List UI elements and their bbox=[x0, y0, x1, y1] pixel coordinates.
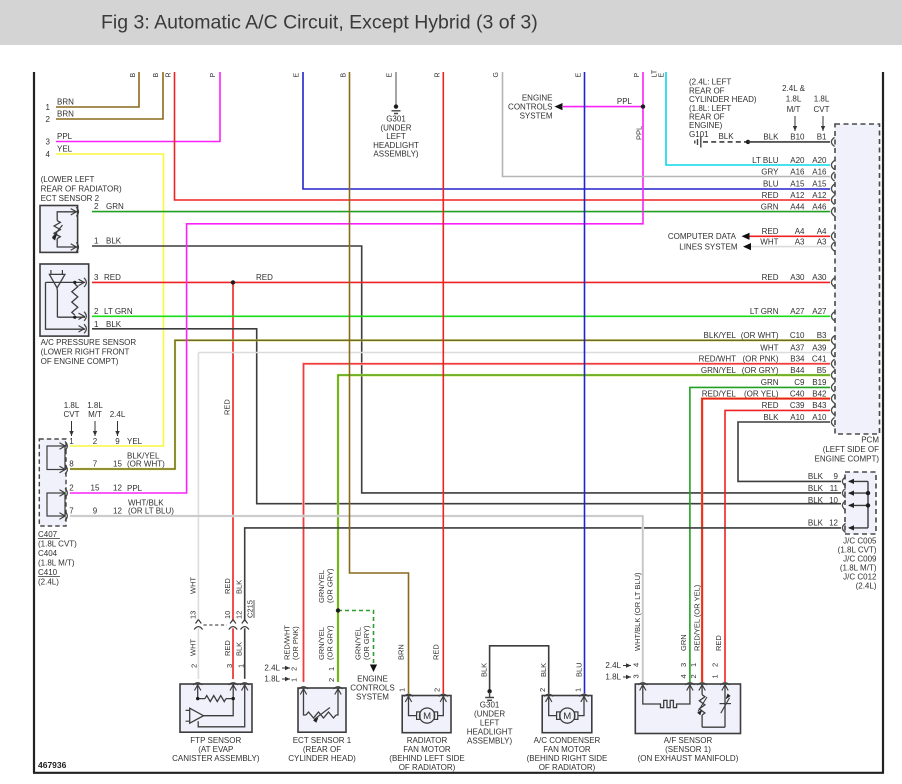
svg-text:1: 1 bbox=[573, 688, 582, 692]
svg-text:(ON EXHAUST MANIFOLD): (ON EXHAUST MANIFOLD) bbox=[638, 754, 739, 763]
svg-text:RED: RED bbox=[762, 401, 779, 410]
svg-text:1: 1 bbox=[46, 103, 51, 112]
svg-text:BLK: BLK bbox=[106, 237, 122, 246]
svg-text:1.8L: 1.8L bbox=[605, 673, 621, 682]
pin 1 FTP sensor bbox=[240, 683, 249, 691]
svg-text:1.8L: 1.8L bbox=[814, 95, 830, 104]
arrow to engine controls system bbox=[370, 665, 377, 673]
svg-text:2: 2 bbox=[94, 202, 99, 211]
J/C internal bus bbox=[867, 481, 869, 528]
svg-text:(AT EVAP: (AT EVAP bbox=[198, 745, 233, 754]
svg-text:2: 2 bbox=[93, 437, 98, 446]
svg-text:C9: C9 bbox=[794, 378, 805, 387]
J/C bus junction bbox=[866, 503, 870, 507]
svg-text:(SENSOR 1): (SENSOR 1) bbox=[665, 745, 711, 754]
svg-text:A12: A12 bbox=[790, 191, 805, 200]
svg-text:4: 4 bbox=[679, 674, 688, 678]
wire BRN row1 (pin 1) bbox=[56, 72, 139, 107]
svg-text:(OR GRY): (OR GRY) bbox=[742, 366, 779, 375]
svg-text:A12: A12 bbox=[812, 191, 827, 200]
svg-text:PPL: PPL bbox=[617, 97, 633, 106]
svg-text:2: 2 bbox=[290, 667, 299, 671]
wire BLU to A/C condenser fan motor pin 1 bbox=[584, 72, 586, 694]
wire GRN ECT sensor 2 pin 2 to PCM A44/A46 bbox=[92, 211, 830, 213]
svg-text:R: R bbox=[166, 72, 173, 77]
motor M condenser fan bbox=[549, 696, 557, 716]
svg-text:RED: RED bbox=[104, 273, 121, 282]
pin A/F sensor RED bbox=[720, 683, 729, 691]
A/C pressure sensor box bbox=[40, 264, 89, 336]
svg-text:LINES SYSTEM: LINES SYSTEM bbox=[679, 243, 738, 252]
svg-text:B3: B3 bbox=[817, 331, 827, 340]
svg-text:BRN: BRN bbox=[397, 644, 406, 660]
wire RED below C215 to FTP sensor pin 3 bbox=[232, 628, 234, 679]
wire GRY to PCM A16 bbox=[503, 72, 831, 177]
svg-text:RED: RED bbox=[223, 578, 232, 594]
J/C pin cup y=493.1 bbox=[842, 489, 845, 498]
wire BRN to radiator fan motor pin 1 bbox=[350, 72, 409, 694]
svg-text:10: 10 bbox=[223, 611, 232, 619]
svg-text:RED: RED bbox=[223, 640, 232, 656]
svg-text:GRN: GRN bbox=[679, 634, 688, 651]
title bar bbox=[0, 0, 902, 45]
C407 pin row 4 bbox=[60, 511, 68, 520]
junction RED at A/C pressure sensor branch bbox=[231, 280, 235, 284]
svg-text:OF RADIATOR): OF RADIATOR) bbox=[399, 763, 456, 772]
svg-text:HEADLIGHT: HEADLIGHT bbox=[467, 728, 513, 737]
svg-text:RED: RED bbox=[432, 644, 441, 660]
connector C407 dashed box bbox=[39, 439, 66, 526]
wire RED branch down to C215 pin 10 bbox=[232, 282, 234, 621]
A/F sensor variable resistor 1 bbox=[701, 684, 703, 695]
svg-text:(OR YEL): (OR YEL) bbox=[744, 389, 779, 398]
svg-text:A/C PRESSURE SENSOR: A/C PRESSURE SENSOR bbox=[41, 338, 137, 347]
svg-text:A27: A27 bbox=[812, 307, 827, 316]
PCM pin cup y=316.3 bbox=[831, 312, 834, 321]
svg-text:LT: LT bbox=[652, 69, 659, 77]
svg-text:A30: A30 bbox=[790, 273, 805, 282]
svg-text:YEL: YEL bbox=[57, 145, 73, 154]
svg-text:(1.8L M/T): (1.8L M/T) bbox=[840, 564, 877, 573]
svg-text:WHT: WHT bbox=[188, 577, 197, 594]
pin 1 A/C condenser fan motor bbox=[579, 694, 588, 702]
connector C215 break BLK bbox=[241, 620, 249, 630]
svg-text:R: R bbox=[435, 72, 442, 77]
svg-text:BLK: BLK bbox=[763, 413, 779, 422]
svg-text:(REAR OF: (REAR OF bbox=[303, 745, 341, 754]
svg-text:1.8L: 1.8L bbox=[264, 675, 280, 684]
svg-text:12: 12 bbox=[829, 519, 838, 528]
svg-text:GRN: GRN bbox=[761, 202, 779, 211]
wire RED to radiator fan motor pin 2 bbox=[442, 72, 444, 694]
pin 2 FTP sensor bbox=[193, 683, 202, 691]
svg-text:RED: RED bbox=[223, 399, 232, 415]
svg-text:A16: A16 bbox=[812, 167, 827, 176]
svg-text:BLK/YEL: BLK/YEL bbox=[704, 331, 737, 340]
svg-text:CYLINDER HEAD): CYLINDER HEAD) bbox=[689, 95, 757, 104]
svg-text:ECT SENSOR 1: ECT SENSOR 1 bbox=[293, 736, 352, 745]
pin A/F sensor RED/YEL bbox=[698, 683, 707, 691]
wire WHT to PCM A37/A39 bbox=[198, 352, 830, 354]
svg-text:1: 1 bbox=[237, 664, 246, 668]
svg-text:P: P bbox=[210, 73, 217, 78]
thermistor ECT sensor 2 bbox=[57, 212, 77, 221]
svg-text:REAR OF: REAR OF bbox=[689, 113, 725, 122]
svg-text:FAN MOTOR: FAN MOTOR bbox=[543, 745, 591, 754]
svg-text:A4: A4 bbox=[795, 227, 805, 236]
svg-text:A20: A20 bbox=[812, 156, 827, 165]
svg-text:A30: A30 bbox=[812, 273, 827, 282]
svg-text:1: 1 bbox=[94, 237, 99, 246]
PCM pin cup y=352.5 bbox=[831, 348, 834, 357]
J/C pin cup y=505.4 bbox=[842, 501, 845, 510]
svg-text:B34: B34 bbox=[790, 355, 805, 364]
svg-text:(2.4L: LEFT: (2.4L: LEFT bbox=[689, 78, 731, 87]
svg-text:GRY: GRY bbox=[761, 167, 779, 176]
svg-text:BLK: BLK bbox=[808, 472, 824, 481]
wire BLK to PCM B10/B1 bbox=[748, 141, 830, 143]
svg-text:G301: G301 bbox=[480, 701, 500, 710]
PCM pin cup y=363.8 bbox=[831, 359, 834, 368]
ground G301 (bottom) symbol bbox=[485, 692, 494, 700]
wire BLK A/C condenser fan motor pin 2 to ground G301 bbox=[490, 646, 549, 694]
svg-text:ASSEMBLY): ASSEMBLY) bbox=[467, 737, 513, 746]
thermistor ECT sensor 1 bbox=[304, 688, 307, 715]
svg-text:COMPUTER DATA: COMPUTER DATA bbox=[668, 232, 737, 241]
wire LT BLU to PCM A20 bbox=[666, 72, 830, 165]
svg-text:B1: B1 bbox=[817, 133, 827, 142]
wire BRN row2 (pin 2) bbox=[56, 72, 163, 119]
svg-text:BLK: BLK bbox=[808, 496, 824, 505]
wire RED A/C pressure sensor pin 3 to PCM A30 bbox=[92, 281, 830, 283]
wire YEL row4 (pin 4) to C407 pin 1 bbox=[56, 154, 164, 446]
svg-text:OF RADIATOR): OF RADIATOR) bbox=[539, 763, 596, 772]
svg-text:2: 2 bbox=[190, 664, 199, 668]
pin A/F sensor GRN bbox=[685, 683, 694, 691]
wire WHT down to C215 pin 13 bbox=[197, 353, 199, 622]
svg-text:(BEHIND RIGHT SIDE: (BEHIND RIGHT SIDE bbox=[527, 754, 608, 763]
svg-text:1: 1 bbox=[94, 320, 99, 329]
svg-text:J/C C005: J/C C005 bbox=[843, 537, 877, 546]
pin 2 ECT sensor 2 bbox=[71, 207, 79, 216]
svg-text:RED: RED bbox=[714, 635, 723, 651]
svg-text:9: 9 bbox=[115, 437, 120, 446]
wire GRN/YEL ECT sensor 1 to PCM B44/B5 bbox=[338, 375, 830, 682]
junction PPL bbox=[641, 104, 645, 108]
svg-text:M: M bbox=[423, 711, 431, 722]
svg-text:RED: RED bbox=[762, 227, 779, 236]
svg-text:15: 15 bbox=[113, 460, 122, 469]
wire RED/YEL A/F sensor to PCM C40/B42 bbox=[702, 399, 830, 682]
svg-text:2.4L: 2.4L bbox=[264, 664, 280, 673]
svg-text:2: 2 bbox=[689, 674, 698, 678]
svg-text:2: 2 bbox=[69, 484, 74, 493]
svg-text:1.8L: 1.8L bbox=[87, 401, 103, 410]
PCM pin cup y=176.5 bbox=[831, 172, 834, 181]
svg-text:WHT/BLK (OR LT BLU): WHT/BLK (OR LT BLU) bbox=[633, 572, 642, 651]
svg-text:1: 1 bbox=[711, 674, 720, 678]
svg-text:3: 3 bbox=[225, 664, 234, 668]
junction dot at G301 bottom bbox=[487, 689, 491, 693]
PCM pin cup y=375.1 bbox=[831, 371, 834, 380]
PCM pin cup y=282.4 bbox=[831, 278, 834, 287]
C407 lower cavity bbox=[47, 493, 65, 516]
pin 2 A/C pressure sensor bbox=[79, 312, 87, 321]
radiator fan motor box bbox=[402, 696, 451, 733]
svg-text:RED/YEL: RED/YEL bbox=[702, 389, 737, 398]
svg-text:J/C C012: J/C C012 bbox=[843, 573, 877, 582]
svg-text:3: 3 bbox=[94, 273, 99, 282]
svg-text:LT GRN: LT GRN bbox=[750, 307, 779, 316]
svg-text:G101: G101 bbox=[689, 130, 709, 139]
svg-text:A/C CONDENSER: A/C CONDENSER bbox=[534, 736, 601, 745]
svg-text:B10: B10 bbox=[790, 133, 805, 142]
J/C pin cup y=527.9 bbox=[842, 523, 845, 532]
svg-text:A46: A46 bbox=[812, 202, 827, 211]
wire BLK FTP sensor pin 1 up to C215 pin 12 bbox=[244, 628, 246, 679]
svg-text:BLK: BLK bbox=[763, 133, 779, 142]
svg-text:B42: B42 bbox=[812, 389, 827, 398]
svg-text:ENGINE: ENGINE bbox=[357, 675, 388, 684]
svg-text:B: B bbox=[341, 73, 348, 78]
svg-text:PPL: PPL bbox=[635, 126, 644, 140]
PCM pin cup y=236.3 bbox=[831, 232, 834, 241]
svg-text:RED: RED bbox=[762, 273, 779, 282]
svg-text:E: E bbox=[387, 73, 394, 78]
svg-text:3: 3 bbox=[679, 663, 688, 667]
motor M radiator fan bbox=[409, 696, 417, 716]
svg-text:FAN MOTOR: FAN MOTOR bbox=[403, 745, 451, 754]
svg-text:A37: A37 bbox=[790, 343, 805, 352]
svg-text:11: 11 bbox=[830, 484, 839, 493]
svg-text:(LOWER RIGHT FRONT: (LOWER RIGHT FRONT bbox=[41, 348, 130, 357]
svg-text:B43: B43 bbox=[812, 401, 827, 410]
svg-text:467936: 467936 bbox=[38, 760, 67, 770]
svg-text:A3: A3 bbox=[795, 237, 805, 246]
svg-text:(2.4L): (2.4L) bbox=[856, 582, 877, 591]
svg-text:2.4L &: 2.4L & bbox=[782, 84, 805, 93]
svg-text:A44: A44 bbox=[790, 202, 805, 211]
pin 1 radiator fan motor bbox=[404, 694, 413, 702]
svg-text:A16: A16 bbox=[790, 167, 805, 176]
wire BLK A/C pressure sensor pin 1 to J/C pin 10 bbox=[92, 329, 841, 504]
J/C bus junction bbox=[866, 491, 870, 495]
svg-text:A10: A10 bbox=[790, 413, 805, 422]
svg-text:M/T: M/T bbox=[787, 105, 801, 114]
junction connector J/C dashed box bbox=[845, 472, 876, 534]
ground G301 (top) symbol bbox=[392, 111, 401, 114]
wire PPL branch to engine controls system arrow bbox=[563, 106, 643, 108]
ground G101 symbol bbox=[695, 137, 701, 148]
svg-text:BRN: BRN bbox=[57, 98, 74, 107]
svg-text:YEL: YEL bbox=[127, 437, 143, 446]
svg-text:(OR PNK): (OR PNK) bbox=[743, 355, 779, 364]
svg-text:A27: A27 bbox=[790, 307, 805, 316]
svg-text:2: 2 bbox=[327, 678, 336, 682]
pin A/F sensor WHT/BLK bbox=[638, 683, 647, 691]
svg-text:2.4L: 2.4L bbox=[605, 661, 621, 670]
svg-text:A20: A20 bbox=[790, 156, 805, 165]
A/F sensor box bbox=[635, 684, 740, 734]
svg-text:G301: G301 bbox=[386, 115, 406, 124]
arrow PPL to engine controls system bbox=[555, 103, 563, 110]
A/F sensor variable resistor 2 bbox=[724, 684, 726, 727]
connector C215 break RED bbox=[229, 620, 237, 630]
svg-text:C39: C39 bbox=[790, 401, 805, 410]
svg-text:HEADLIGHT: HEADLIGHT bbox=[373, 141, 419, 150]
svg-text:LEFT: LEFT bbox=[480, 719, 500, 728]
svg-text:2: 2 bbox=[46, 115, 51, 124]
svg-text:BLK: BLK bbox=[718, 132, 734, 141]
svg-text:B44: B44 bbox=[790, 366, 805, 375]
pin 1 ECT sensor 2 bbox=[71, 242, 79, 251]
pin ECT sensor 1 right bbox=[333, 687, 342, 695]
PCM pin cup y=141.9 bbox=[831, 137, 834, 146]
wire WHT/BLK C407 to A/F sensor bbox=[70, 516, 643, 682]
svg-text:CYLINDER HEAD): CYLINDER HEAD) bbox=[288, 754, 356, 763]
svg-text:(OR PNK): (OR PNK) bbox=[291, 626, 300, 660]
svg-text:BLK: BLK bbox=[539, 663, 548, 677]
svg-text:BLU: BLU bbox=[763, 180, 779, 189]
svg-text:7: 7 bbox=[93, 460, 98, 469]
svg-text:CONTROLS: CONTROLS bbox=[350, 684, 394, 693]
ECT sensor 2 box bbox=[40, 206, 78, 253]
svg-text:BRN: BRN bbox=[57, 110, 74, 119]
svg-text:G: G bbox=[493, 72, 500, 77]
svg-text:(OR LT BLU): (OR LT BLU) bbox=[128, 507, 174, 516]
ECT sensor 1 box bbox=[298, 688, 346, 732]
wire PPL C407 pin 2 up to engine controls junction bbox=[70, 72, 643, 493]
svg-text:7: 7 bbox=[69, 507, 74, 516]
svg-text:M/T: M/T bbox=[88, 410, 102, 419]
svg-text:ENGINE: ENGINE bbox=[522, 94, 553, 103]
svg-text:SYSTEM: SYSTEM bbox=[356, 693, 389, 702]
svg-text:(UNDER: (UNDER bbox=[474, 710, 505, 719]
PCM pin cup y=387.4 bbox=[831, 383, 834, 392]
svg-text:(LEFT SIDE OF: (LEFT SIDE OF bbox=[823, 445, 879, 454]
svg-text:8: 8 bbox=[69, 460, 74, 469]
svg-text:OF ENGINE COMPT): OF ENGINE COMPT) bbox=[41, 357, 119, 366]
svg-text:12: 12 bbox=[235, 611, 244, 619]
svg-text:C215: C215 bbox=[246, 600, 255, 618]
svg-text:2: 2 bbox=[711, 663, 720, 667]
svg-text:(1.8L CVT): (1.8L CVT) bbox=[38, 540, 77, 549]
C215 dashed connector link bbox=[204, 624, 228, 626]
svg-text:BLU: BLU bbox=[575, 662, 584, 677]
svg-text:BLK: BLK bbox=[480, 663, 489, 677]
svg-text:C407: C407 bbox=[38, 530, 58, 539]
svg-text:B5: B5 bbox=[817, 366, 827, 375]
svg-text:LT GRN: LT GRN bbox=[104, 307, 133, 316]
svg-text:(OR GRY): (OR GRY) bbox=[326, 568, 335, 603]
svg-text:1: 1 bbox=[327, 667, 336, 671]
svg-text:CONTROLS: CONTROLS bbox=[508, 103, 552, 112]
svg-text:CANISTER ASSEMBLY): CANISTER ASSEMBLY) bbox=[172, 754, 260, 763]
wire BLK PCM A10 to J/C pin 9 bbox=[738, 422, 841, 481]
PCM pin cup y=340.3 bbox=[831, 336, 834, 345]
wire BLK dashed from G101 bbox=[703, 141, 748, 143]
svg-text:1: 1 bbox=[290, 678, 299, 682]
PCM pin cup y=422 bbox=[831, 417, 834, 426]
svg-text:PCM: PCM bbox=[861, 436, 879, 445]
pin 3 FTP sensor bbox=[229, 683, 238, 691]
A/C condenser fan motor box bbox=[542, 696, 592, 733]
svg-text:(OR WHT): (OR WHT) bbox=[741, 331, 779, 340]
svg-text:ENGINE COMPT): ENGINE COMPT) bbox=[815, 455, 880, 464]
svg-text:C10: C10 bbox=[790, 331, 805, 340]
svg-text:E: E bbox=[294, 73, 301, 78]
svg-text:2: 2 bbox=[94, 307, 99, 316]
wire RED/WHT ECT sensor 1 to PCM B34/C41 bbox=[304, 364, 831, 682]
pin 2 radiator fan motor bbox=[439, 694, 448, 702]
wire WHT below C215 to FTP sensor pin 2 bbox=[197, 628, 199, 679]
svg-text:C40: C40 bbox=[790, 389, 805, 398]
wire RED A/F sensor to PCM C39/B43 bbox=[725, 410, 830, 682]
svg-text:RED: RED bbox=[256, 273, 273, 282]
svg-text:CVT: CVT bbox=[64, 410, 80, 419]
svg-text:2.4L: 2.4L bbox=[110, 410, 126, 419]
A/F sensor heater element bbox=[643, 684, 690, 708]
svg-text:15: 15 bbox=[91, 484, 100, 493]
PCM pin cup y=246.6 bbox=[831, 242, 834, 251]
svg-text:ENGINE): ENGINE) bbox=[689, 121, 723, 130]
svg-text:ECT SENSOR 2: ECT SENSOR 2 bbox=[41, 194, 100, 203]
svg-text:9: 9 bbox=[93, 507, 98, 516]
svg-text:RED/WHT: RED/WHT bbox=[699, 355, 736, 364]
wire PPL row3 (pin 3) bbox=[56, 72, 220, 142]
svg-text:M: M bbox=[563, 711, 571, 722]
svg-text:A3: A3 bbox=[817, 237, 827, 246]
svg-text:(BEHIND LEFT SIDE: (BEHIND LEFT SIDE bbox=[389, 754, 464, 763]
svg-text:PPL: PPL bbox=[127, 484, 143, 493]
FTP sensor box bbox=[180, 684, 252, 732]
svg-text:2: 2 bbox=[432, 688, 441, 692]
svg-text:A10: A10 bbox=[812, 413, 827, 422]
svg-text:BLK: BLK bbox=[235, 580, 244, 594]
FTP sensor internals bbox=[197, 684, 199, 699]
svg-text:A15: A15 bbox=[790, 180, 805, 189]
C407 pin row 2 bbox=[60, 465, 68, 474]
A/C pressure sensor internals bbox=[51, 270, 63, 274]
svg-text:B19: B19 bbox=[812, 378, 827, 387]
junction BLK bbox=[746, 140, 750, 144]
svg-text:(1.8L M/T): (1.8L M/T) bbox=[38, 559, 75, 568]
svg-text:B: B bbox=[153, 73, 160, 78]
svg-text:WHT: WHT bbox=[760, 343, 778, 352]
PCM connector dashed box bbox=[835, 124, 880, 434]
wire GRN A/F sensor to PCM C9/B19 bbox=[690, 387, 830, 682]
C407 pin row 1 bbox=[60, 441, 68, 450]
svg-text:C404: C404 bbox=[38, 549, 58, 558]
PCM pin cup y=410.4 bbox=[831, 406, 834, 415]
junction GRN/YEL at dashed branch bbox=[336, 608, 340, 612]
C407 upper cavity bbox=[47, 446, 65, 470]
wire RED computer data lines to PCM A4 bbox=[750, 235, 831, 237]
svg-text:LT BLU: LT BLU bbox=[752, 156, 779, 165]
svg-text:9: 9 bbox=[834, 472, 839, 481]
svg-text:1: 1 bbox=[69, 437, 74, 446]
wire BLK above C215 to J/C pin 12 bbox=[245, 528, 841, 621]
svg-text:PPL: PPL bbox=[57, 132, 73, 141]
svg-text:GRN: GRN bbox=[106, 202, 124, 211]
PCM pin cup y=398.6 bbox=[831, 394, 834, 403]
arrow WHT to computer data lines system bbox=[743, 243, 751, 250]
svg-text:LEFT: LEFT bbox=[386, 132, 406, 141]
svg-text:SYSTEM: SYSTEM bbox=[520, 112, 553, 121]
svg-text:B: B bbox=[130, 73, 137, 78]
wire BLU to PCM A15 bbox=[303, 72, 830, 189]
svg-text:BLK: BLK bbox=[808, 484, 824, 493]
